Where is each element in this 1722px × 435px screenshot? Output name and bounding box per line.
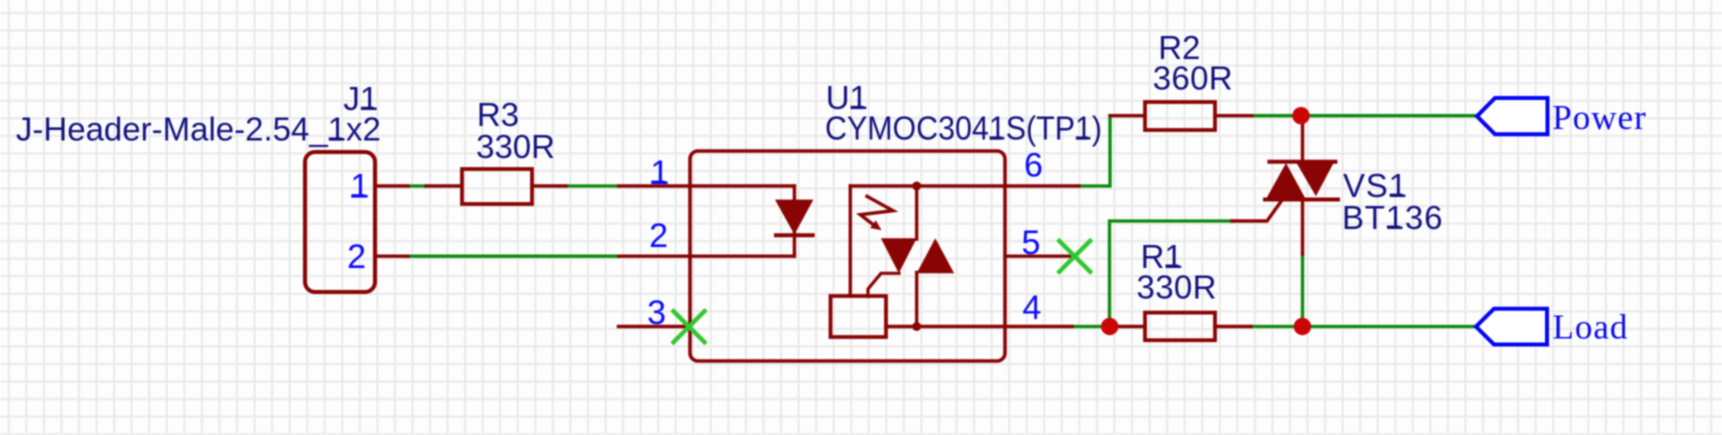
wire R1 to Load port bbox=[1251, 325, 1476, 328]
svg-text:5: 5 bbox=[1022, 224, 1041, 262]
net port Power bbox=[1477, 98, 1548, 134]
svg-text:3: 3 bbox=[647, 294, 666, 332]
wire J1 pin1 to R3 bbox=[408, 184, 426, 187]
wire U1 pin4 to junction bbox=[1072, 325, 1110, 328]
label R1 bbox=[1141, 238, 1183, 275]
wire R3 to U1 pin1 bbox=[566, 184, 619, 187]
svg-text:CYMOC3041S(TP1): CYMOC3041S(TP1) bbox=[825, 110, 1102, 147]
svg-text:330R: 330R bbox=[476, 128, 555, 165]
label VS1 bbox=[1343, 167, 1408, 204]
svg-text:330R: 330R bbox=[1137, 268, 1217, 305]
triac VS1 bbox=[1232, 116, 1338, 254]
svg-text:2: 2 bbox=[649, 217, 668, 255]
label J1 bbox=[343, 80, 378, 117]
junction dot at R1 right / VS1 MT1 bbox=[1294, 318, 1311, 335]
svg-text:J-Header-Male-2.54_1x2: J-Header-Male-2.54_1x2 bbox=[16, 111, 381, 148]
label BT136 of VS1 bbox=[1342, 199, 1443, 236]
U1 pin 5 stub bbox=[1005, 255, 1075, 258]
svg-text:1: 1 bbox=[650, 154, 669, 192]
no-connect X at U1 pin5 bbox=[1059, 241, 1090, 272]
LED diode inside U1 bbox=[775, 186, 813, 256]
wire J1 pin2 to U1 pin2 bbox=[406, 255, 619, 258]
svg-text:Power: Power bbox=[1552, 98, 1646, 137]
wire R2 to Power port bbox=[1252, 114, 1477, 117]
U1 pin 2 stub and internal bbox=[619, 255, 794, 258]
op-coupler U1 body bbox=[690, 151, 1005, 361]
svg-text:1: 1 bbox=[350, 168, 369, 206]
label U1 bbox=[826, 79, 868, 116]
junction dot inside U1 top bbox=[912, 182, 921, 191]
junction dot inside U1 bottom bbox=[912, 322, 921, 331]
resistor R1 bbox=[1110, 313, 1251, 341]
U1 internal bottom line bbox=[886, 325, 1005, 328]
U1 pin 4 stub bbox=[1005, 325, 1072, 328]
pin number 1 of U1 bbox=[650, 154, 669, 192]
svg-text:2: 2 bbox=[347, 238, 366, 276]
photo-triac inside U1 bbox=[850, 186, 1005, 327]
no-connect X at U1 pin3 bbox=[674, 311, 705, 342]
label J-Header-Male-2.54_1x2 bbox=[16, 111, 381, 148]
svg-text:4: 4 bbox=[1022, 289, 1041, 327]
light arrow inside U1 bbox=[860, 196, 893, 230]
resistor R2 bbox=[1110, 102, 1252, 130]
net port Load bbox=[1476, 309, 1547, 345]
label CYMOC3041S(TP1) bbox=[825, 110, 1102, 147]
wire VS1 MT1 to R1 junction bbox=[1301, 254, 1304, 327]
pin number 1 of J1 bbox=[350, 168, 369, 206]
U1 pin 1 stub bbox=[619, 184, 794, 187]
wire U1 pin6 to R2 bbox=[1079, 116, 1110, 186]
connector J1 bbox=[305, 152, 408, 292]
svg-text:Load: Load bbox=[1553, 308, 1629, 347]
junction dot at U1 pin4 / gate riser bbox=[1101, 318, 1118, 335]
wire gate riser to VS1 gate bbox=[1110, 221, 1233, 327]
svg-text:BT136: BT136 bbox=[1342, 199, 1443, 236]
junction dot at R2 right / VS1 MT2 bbox=[1292, 107, 1309, 124]
svg-text:6: 6 bbox=[1024, 147, 1043, 185]
svg-text:360R: 360R bbox=[1153, 60, 1233, 97]
zero-cross circuit box inside U1 bbox=[831, 296, 887, 337]
U1 pin 6 stub bbox=[1005, 184, 1079, 187]
resistor R3 bbox=[426, 169, 566, 204]
U1 pin 3 stub bbox=[619, 325, 691, 328]
